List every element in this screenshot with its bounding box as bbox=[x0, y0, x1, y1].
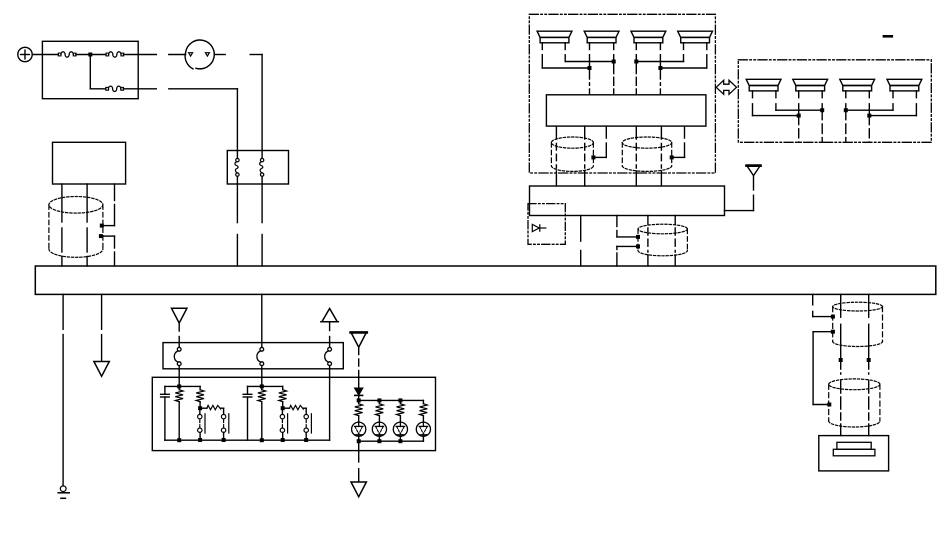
wire bbox=[90, 88, 106, 90]
wire radio to connector C4 bbox=[617, 216, 639, 237]
switch box S1 bbox=[163, 343, 343, 369]
wire radio to bus through C4 bbox=[674, 216, 676, 267]
wire node to SP8R bbox=[869, 115, 916, 117]
SP4 right leg bbox=[706, 43, 708, 68]
SP1 right leg bbox=[564, 43, 566, 62]
node connector pin lower bbox=[99, 234, 103, 238]
SP2 right leg wire bbox=[613, 43, 615, 62]
noise suppressor box (dash-dot) bbox=[528, 204, 565, 245]
connector C2 (dashed cylinder) bbox=[551, 137, 593, 171]
main bus bar bbox=[35, 266, 936, 294]
wire radio to bus bbox=[580, 216, 582, 267]
ground wire bbox=[62, 294, 64, 486]
node C2 pin bbox=[591, 155, 595, 159]
lamp branch 3 bbox=[393, 400, 407, 441]
wire amp to connector C2 bbox=[555, 126, 557, 186]
SP7 right leg wire bbox=[868, 91, 870, 116]
node C5 pin mid bbox=[831, 330, 835, 334]
wire down from junction bbox=[89, 55, 91, 89]
wire to ignition switch bbox=[124, 54, 157, 56]
wire connector to bus bbox=[101, 236, 115, 266]
wire SP1L to node bbox=[542, 67, 589, 69]
wire C4 to bus bbox=[617, 246, 638, 266]
lamp branch 4 bbox=[416, 400, 430, 441]
node bbox=[357, 439, 361, 443]
wire switch2 to unit box bbox=[261, 369, 263, 385]
lamp branch 2 bbox=[372, 400, 386, 441]
SP2 left leg wire bbox=[589, 43, 591, 68]
battery B1 positive terminal bbox=[18, 47, 32, 61]
speaker SP7 bbox=[840, 79, 875, 91]
node bbox=[634, 60, 638, 64]
node C3 pin bbox=[670, 155, 674, 159]
wire SP5L to node bbox=[753, 115, 799, 117]
node bbox=[867, 358, 871, 362]
SP6 left leg wire bbox=[798, 91, 800, 116]
relay unit 1 bbox=[161, 384, 229, 442]
off-page arrow A3 (up triangle) bbox=[321, 309, 339, 322]
dashed wire down bbox=[845, 110, 847, 142]
fusible link 3 bbox=[106, 86, 124, 91]
off-page arrow A2 (down triangle) bbox=[172, 308, 187, 323]
SP4 left leg bbox=[683, 43, 685, 62]
label dash bbox=[884, 35, 892, 38]
wire ignition to branch bbox=[214, 54, 225, 56]
fuse box 2 bbox=[227, 151, 288, 185]
wire bus through C5 C6 to device bbox=[868, 294, 870, 435]
dashed wire down bbox=[821, 110, 823, 142]
wire amp to connector C2 bbox=[584, 126, 586, 186]
wire bus through C5 C6 to device bbox=[840, 294, 842, 435]
ignition switch bbox=[185, 40, 214, 69]
wire down to switch box bbox=[261, 55, 263, 151]
connector C6 (dashed cylinder) bbox=[829, 379, 880, 427]
dashed wire to off-page arrow bbox=[358, 451, 360, 482]
wire C5 bypass to C6 bbox=[813, 332, 833, 405]
wire lower feed bbox=[123, 88, 156, 90]
node C4 pin lower bbox=[636, 244, 640, 248]
wire SP1R to node bbox=[565, 61, 614, 63]
wire return to box edge bbox=[358, 441, 360, 450]
speaker SP3 bbox=[631, 31, 666, 43]
switch 1 bbox=[174, 343, 181, 369]
node junction main feed bbox=[88, 53, 92, 57]
wire down to switch box bbox=[236, 89, 238, 151]
wire K1 pin3 to connector bbox=[102, 184, 114, 226]
node bbox=[377, 398, 381, 402]
wire K1 pin1 to bus bbox=[61, 184, 63, 266]
amplifier unit bbox=[546, 95, 706, 126]
dashed wire to amplifier bbox=[589, 68, 591, 95]
suppressor symbol bbox=[532, 224, 546, 231]
wire antenna to radio bbox=[725, 176, 754, 211]
node lamp rail left bbox=[357, 398, 361, 402]
wire K1 pin2 to bus bbox=[86, 184, 88, 266]
wire bus to connector C5 bbox=[813, 294, 833, 316]
node bbox=[839, 358, 843, 362]
SP7 left leg wire bbox=[845, 91, 847, 110]
fuse box bbox=[42, 41, 138, 98]
relay unit 2 bbox=[243, 384, 311, 442]
dashed wire down bbox=[868, 116, 870, 143]
connector C5 (dashed cylinder) bbox=[833, 302, 883, 346]
switch 3 bbox=[325, 343, 332, 369]
wire SP5R to node bbox=[776, 109, 822, 111]
connector C3 (dashed cylinder) bbox=[622, 137, 671, 171]
wire amp to connector C3 bbox=[660, 126, 662, 186]
node bbox=[844, 108, 848, 112]
wire SP4R to node bbox=[660, 67, 706, 69]
wire radio to bus through C4 bbox=[647, 216, 649, 267]
node bbox=[398, 439, 402, 443]
wire amp to connector C3 bbox=[635, 126, 637, 186]
lamp branch 1 bbox=[352, 400, 366, 441]
lamp return rail bbox=[359, 440, 424, 442]
unit internal ground rail bbox=[165, 439, 330, 441]
fuse 5 bbox=[260, 151, 264, 185]
inter-assembly double arrow bbox=[716, 80, 736, 94]
node C5 pin upper bbox=[831, 315, 835, 319]
speaker SP4 bbox=[678, 31, 713, 43]
wire battery to fuse box bbox=[32, 54, 58, 56]
SP3 right leg wire bbox=[659, 43, 661, 68]
switch 2 bbox=[257, 343, 264, 369]
off-page arrow A5 (down triangle) bbox=[351, 482, 366, 497]
off-page arrow A1 (down triangle) bbox=[94, 362, 109, 377]
dashed wire to amplifier bbox=[635, 62, 637, 95]
fusible link 2 bbox=[106, 52, 124, 57]
dashed wire to amplifier bbox=[613, 62, 615, 95]
radio unit bbox=[530, 186, 725, 216]
wire switch3 to unit box bbox=[329, 369, 331, 378]
SP3 left leg wire bbox=[635, 43, 637, 62]
node C4 pin upper bbox=[636, 235, 640, 239]
wire arrow to switch box bbox=[329, 322, 331, 343]
lamp supply rail bbox=[359, 399, 424, 401]
speaker SP8 bbox=[887, 79, 922, 91]
device box (antenna motor) bbox=[819, 436, 889, 471]
wire arrow to switch box bbox=[178, 323, 180, 342]
wire to bus bbox=[236, 184, 238, 266]
node connector pin upper bbox=[100, 224, 104, 228]
node C6 pin bbox=[827, 403, 831, 407]
SP8 left leg bbox=[892, 91, 894, 110]
node bbox=[658, 66, 662, 70]
diode D1 bbox=[355, 388, 363, 400]
wire switch1 to unit box bbox=[178, 369, 180, 385]
node bbox=[820, 108, 824, 112]
wire into box bbox=[358, 377, 360, 388]
connector C4 (dashed cylinder) bbox=[638, 224, 687, 256]
speaker SP5 bbox=[746, 79, 781, 91]
node bbox=[867, 114, 871, 118]
dashed wire down bbox=[798, 116, 800, 143]
pedestal upper bbox=[837, 442, 871, 449]
ground G1 bbox=[58, 486, 69, 498]
wire bus to switch box bbox=[261, 294, 263, 342]
speaker assembly box 2 (dash-dot) bbox=[738, 60, 931, 143]
speaker SP1 bbox=[537, 31, 572, 43]
wire amp stub to C2 pin bbox=[594, 126, 606, 157]
wire to bus bbox=[261, 184, 263, 266]
SP5 left leg bbox=[752, 91, 754, 116]
wire SP4L to node bbox=[636, 61, 683, 63]
dashed wire arrow to unit box bbox=[358, 348, 360, 378]
speaker assembly box (dash-dot) bbox=[529, 14, 715, 173]
connector grommet C1 (dashed cylinder) bbox=[49, 197, 103, 258]
antenna mast symbol (bold top) bbox=[747, 166, 761, 176]
node bbox=[797, 114, 801, 118]
speaker SP2 bbox=[584, 31, 619, 43]
node bbox=[588, 66, 592, 70]
wire to off-page arrow bbox=[101, 294, 103, 361]
pedestal lower bbox=[833, 449, 875, 456]
dashed wire to amplifier bbox=[659, 68, 661, 95]
node bbox=[612, 60, 616, 64]
wire node to SP8L bbox=[846, 109, 893, 111]
fuse 4 bbox=[235, 151, 239, 185]
SP5 right leg bbox=[775, 91, 777, 110]
SP6 right leg wire bbox=[821, 91, 823, 110]
node bbox=[398, 398, 402, 402]
control unit box bbox=[152, 377, 435, 450]
wire amp stub to C3 pin bbox=[672, 126, 684, 157]
SP8 right leg bbox=[915, 91, 917, 116]
wire rail corner up to switch3 feed bbox=[329, 377, 331, 440]
speaker SP6 bbox=[793, 79, 828, 91]
wire bbox=[76, 54, 106, 56]
relay box K1 bbox=[53, 142, 126, 184]
node bbox=[377, 439, 381, 443]
off-page arrow A4 (down triangle, bold top) bbox=[351, 332, 367, 347]
fusible link 1 bbox=[58, 52, 76, 57]
SP1 left leg bbox=[541, 43, 543, 68]
